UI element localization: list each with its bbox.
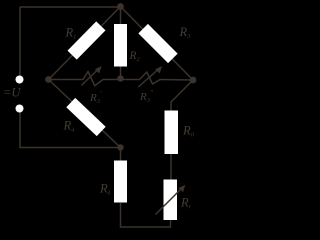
- wire middle horizontal center segment: [103, 79, 140, 81]
- node bridge left: [45, 76, 52, 83]
- node bridge right: [190, 77, 197, 84]
- battery terminal bottom: [16, 105, 24, 113]
- wire bottom right loop: [121, 203, 171, 227]
- wire top horizontal from battery to top node: [20, 6, 121, 8]
- variable resistor R3' arrowhead: [95, 66, 102, 74]
- resistor R2 body: [114, 24, 127, 67]
- wire bridge arm R4 diagonal: [49, 80, 121, 148]
- resistor R_lambda body: [114, 161, 127, 203]
- thermometer resistor Rr arrowhead: [179, 185, 186, 193]
- variable resistor R3' arrow shaft: [81, 68, 99, 86]
- resistor R0 body: [165, 111, 179, 155]
- wire middle horizontal left segment: [49, 79, 84, 81]
- resistor R3 body: [138, 24, 177, 63]
- node bridge bottom: [117, 144, 123, 150]
- node bridge middle: [117, 75, 123, 81]
- battery terminal top: [16, 76, 24, 84]
- wire R0 to Rr: [170, 153, 172, 180]
- svg-text:=U: =U: [3, 86, 21, 100]
- wire left vertical lower: [20, 112, 120, 148]
- resistor R4 body: [66, 98, 105, 136]
- variable resistor R3'' zigzag: [140, 72, 161, 84]
- wire left vertical upper: [19, 7, 21, 76]
- node bridge top: [117, 3, 124, 10]
- wire R2 to middle node: [120, 66, 122, 80]
- thermometer resistor Rr arrow shaft: [156, 187, 184, 215]
- wire right node down to R0: [171, 80, 193, 111]
- wire node to R_lambda: [120, 148, 122, 162]
- wire top node to R2: [120, 7, 122, 25]
- wire bridge arm R3 diagonal: [121, 7, 194, 81]
- thermometer resistor Rr body: [164, 180, 178, 221]
- wire bridge arm R1 diagonal: [49, 7, 121, 80]
- variable resistor R3'' arrow shaft: [138, 68, 160, 87]
- variable resistor R3' zigzag: [83, 72, 103, 86]
- resistor R1 body: [67, 21, 105, 59]
- variable resistor R3'' arrowhead: [155, 66, 162, 74]
- wire middle horizontal right segment: [160, 79, 193, 82]
